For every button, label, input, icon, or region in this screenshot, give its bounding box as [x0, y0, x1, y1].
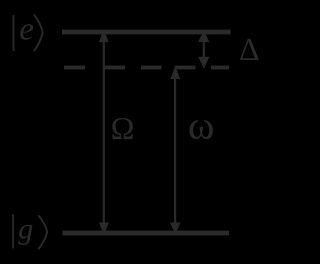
- arrowhead omega up: [170, 66, 180, 79]
- arrow omega shaft: [174, 73, 176, 223]
- svg-text:Ω: Ω: [111, 110, 135, 146]
- svg-text:g: g: [18, 213, 33, 246]
- dashed detuned level: [64, 66, 229, 70]
- arrowhead Omega up: [99, 30, 109, 43]
- arrowhead omega down: [170, 223, 180, 235]
- ket bar of |g>: [12, 214, 14, 248]
- arrow Omega shaft: [103, 40, 105, 223]
- ket bracket of |g>: [38, 215, 47, 249]
- level line |g>: [63, 231, 230, 236]
- arrowhead Omega down: [99, 223, 109, 235]
- svg-text:Δ: Δ: [239, 31, 260, 67]
- svg-text:ω: ω: [188, 103, 214, 148]
- ket bracket of |e>: [34, 14, 43, 51]
- svg-text:e: e: [19, 12, 34, 48]
- ket bar of |e>: [13, 15, 15, 51]
- arrowhead Delta up: [198, 31, 209, 43]
- arrowhead Delta down: [198, 57, 209, 69]
- arrow Delta shaft: [203, 40, 205, 58]
- level line |e>: [62, 30, 231, 35]
